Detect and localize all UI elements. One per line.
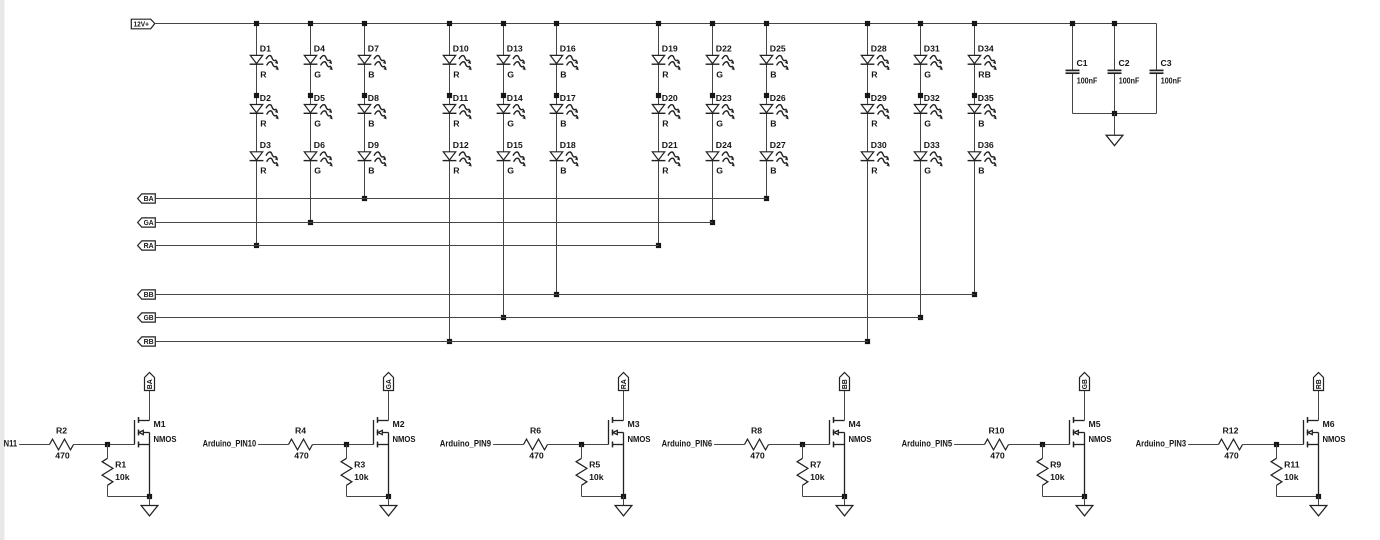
svg-text:D19: D19 — [662, 44, 678, 54]
wire source/ground bus M1 — [108, 496, 150, 498]
LED D11 — [443, 93, 474, 129]
junction rail col6 — [554, 21, 559, 26]
capacitor C2 — [1108, 24, 1140, 114]
svg-text:G: G — [507, 166, 514, 176]
svg-text:D23: D23 — [716, 93, 732, 103]
svg-text:B: B — [978, 118, 984, 128]
junction col4 to RB bus — [447, 339, 452, 344]
junction col6 to BB bus — [554, 292, 559, 297]
junction col1 to RA bus — [254, 243, 259, 248]
svg-text:R: R — [453, 118, 460, 128]
wire LED column 11 (GB string) — [920, 24, 922, 318]
svg-text:D29: D29 — [871, 93, 887, 103]
junction rail col8 — [710, 21, 715, 26]
svg-text:G: G — [507, 69, 514, 79]
junction rail col9 — [764, 21, 769, 26]
svg-text:D14: D14 — [507, 93, 523, 103]
svg-text:D28: D28 — [871, 44, 887, 54]
svg-text:D12: D12 — [453, 140, 469, 150]
wire LED column 7 (RA string) — [658, 24, 660, 246]
resistor R1 10k pull-down — [102, 445, 130, 497]
svg-text:R6: R6 — [530, 426, 541, 436]
LED D12 — [443, 140, 474, 176]
LED D20 — [652, 93, 683, 129]
junction rail col3 — [362, 21, 367, 26]
svg-text:G: G — [924, 118, 931, 128]
junction source-ground M6 — [1316, 494, 1321, 499]
svg-text:NMOS: NMOS — [1323, 434, 1346, 444]
svg-text:D16: D16 — [560, 44, 576, 54]
LED D26 — [760, 93, 791, 129]
svg-text:B: B — [770, 69, 776, 79]
svg-text:470: 470 — [1224, 450, 1239, 460]
svg-text:D20: D20 — [662, 93, 678, 103]
net flag GB — [138, 313, 156, 322]
svg-text:R: R — [453, 166, 460, 176]
svg-text:Arduino_PIN5: Arduino_PIN5 — [902, 439, 953, 449]
svg-text:M1: M1 — [154, 419, 166, 429]
wire source/ground bus M6 — [1277, 496, 1319, 498]
svg-text:D7: D7 — [368, 44, 379, 54]
junction col10 to RB bus — [865, 339, 870, 344]
resistor R4 470 — [289, 426, 313, 461]
wire RB bus — [155, 341, 867, 343]
svg-text:R5: R5 — [589, 460, 600, 470]
power flag 12V+ — [131, 19, 155, 29]
LED D1 — [250, 44, 281, 80]
svg-text:D34: D34 — [978, 44, 994, 54]
junction col5 to GB bus — [501, 315, 506, 320]
junction col3 mid node — [362, 93, 367, 98]
LED D30 — [861, 140, 892, 176]
junction source-ground M2 — [386, 494, 391, 499]
output flag BA — [145, 373, 155, 391]
LED D9 — [358, 140, 389, 176]
capacitor C1 — [1066, 24, 1098, 114]
ground (M6) — [1310, 497, 1327, 516]
svg-text:Arduino_PIN10: Arduino_PIN10 — [203, 439, 257, 449]
LED D13 — [497, 44, 528, 80]
svg-text:R: R — [260, 166, 267, 176]
svg-text:R: R — [871, 118, 878, 128]
junction rail col5 — [501, 21, 506, 26]
svg-text:D2: D2 — [260, 93, 271, 103]
svg-text:B: B — [560, 118, 566, 128]
svg-text:NMOS: NMOS — [628, 434, 651, 444]
svg-text:D9: D9 — [368, 140, 379, 150]
transistor M4 NMOS — [830, 391, 872, 497]
svg-text:R: R — [260, 69, 267, 79]
svg-text:D25: D25 — [770, 44, 786, 54]
junction col10 mid node — [865, 93, 870, 98]
LED D25 — [760, 44, 791, 80]
wire LED column 2 (GA string) — [310, 24, 312, 223]
svg-text:R: R — [260, 118, 267, 128]
wire GB bus — [155, 317, 920, 319]
wire LED column 10 (RB string) — [867, 24, 869, 342]
svg-text:R1: R1 — [115, 460, 126, 470]
LED D27 — [760, 140, 791, 176]
svg-text:B: B — [368, 69, 374, 79]
svg-text:Arduino_PIN9: Arduino_PIN9 — [440, 439, 491, 449]
svg-text:R12: R12 — [1223, 426, 1239, 436]
junction rail col1 — [254, 21, 259, 26]
LED D23 — [706, 93, 737, 129]
svg-text:D13: D13 — [507, 44, 523, 54]
junction col12 mid node — [972, 93, 977, 98]
ground (M3) — [615, 497, 632, 516]
resistor R2 470 — [50, 426, 74, 461]
wire capacitor ground bus — [1073, 113, 1157, 115]
junction source-ground M1 — [147, 494, 152, 499]
LED D16 — [550, 44, 581, 80]
svg-text:R: R — [871, 166, 878, 176]
wire R6 to gate node — [548, 444, 609, 446]
capacitor C3 — [1150, 24, 1182, 114]
svg-text:R: R — [871, 69, 878, 79]
svg-text:100nF: 100nF — [1077, 76, 1098, 86]
resistor R8 470 — [745, 426, 769, 461]
ground (M5) — [1076, 497, 1093, 516]
junction rail col2 — [308, 21, 313, 26]
wire LED column 5 (GB string) — [503, 24, 505, 318]
junction col1 mid node — [254, 93, 259, 98]
svg-text:10k: 10k — [115, 472, 130, 482]
LED D7 — [358, 44, 389, 80]
transistor M5 NMOS — [1070, 391, 1112, 497]
junction gate node M2 — [344, 442, 349, 447]
LED D17 — [550, 93, 581, 129]
LED D31 — [914, 44, 945, 80]
svg-text:Arduino_PIN6: Arduino_PIN6 — [662, 439, 713, 449]
svg-text:B: B — [368, 166, 374, 176]
svg-text:D35: D35 — [978, 93, 994, 103]
svg-text:M2: M2 — [393, 419, 405, 429]
svg-text:M3: M3 — [628, 419, 640, 429]
resistor R11 10k pull-down — [1271, 445, 1300, 497]
wire R2 to gate node — [74, 444, 135, 446]
wire RA bus — [155, 245, 658, 247]
junction col6 mid node — [554, 93, 559, 98]
LED D8 — [358, 93, 389, 129]
junction col9 mid node — [764, 93, 769, 98]
svg-text:B: B — [770, 118, 776, 128]
junction col4 mid node — [447, 93, 452, 98]
svg-text:RB: RB — [1314, 379, 1323, 389]
svg-text:B: B — [560, 69, 566, 79]
svg-text:NMOS: NMOS — [154, 434, 177, 444]
svg-text:470: 470 — [750, 450, 765, 460]
svg-text:D6: D6 — [314, 140, 325, 150]
LED D35 — [968, 93, 999, 129]
junction rail col12 — [972, 21, 977, 26]
junction col12 to BB bus — [972, 292, 977, 297]
svg-text:C2: C2 — [1119, 58, 1130, 68]
junction col2 mid node — [308, 93, 313, 98]
junction col7 to RA bus — [656, 243, 661, 248]
svg-text:470: 470 — [529, 450, 544, 460]
wire R8 to gate node — [769, 444, 830, 446]
svg-text:C3: C3 — [1161, 58, 1172, 68]
svg-text:G: G — [924, 69, 931, 79]
wire R12 to gate node — [1243, 444, 1304, 446]
resistor R5 10k pull-down — [576, 445, 604, 497]
svg-text:M6: M6 — [1323, 419, 1335, 429]
svg-text:D4: D4 — [314, 44, 325, 54]
wire LED column 9 (BA string) — [766, 24, 768, 199]
svg-text:B: B — [770, 166, 776, 176]
junction col8 to GA bus — [710, 220, 715, 225]
wire LED column 6 (BB string) — [556, 24, 558, 295]
LED D6 — [304, 140, 335, 176]
svg-text:10k: 10k — [810, 472, 825, 482]
wire LED column 8 (GA string) — [712, 24, 714, 223]
svg-text:R8: R8 — [751, 426, 762, 436]
svg-text:RA: RA — [144, 241, 154, 250]
transistor M1 NMOS — [135, 391, 177, 497]
svg-text:B: B — [560, 166, 566, 176]
junction rail C2 — [1112, 21, 1117, 26]
output flag RB — [1314, 373, 1324, 391]
screenshot left border strip — [0, 0, 5, 540]
LED D29 — [861, 93, 892, 129]
svg-text:R7: R7 — [810, 460, 821, 470]
svg-text:D15: D15 — [507, 140, 523, 150]
wire N11 to R2 — [19, 444, 49, 446]
svg-text:R9: R9 — [1050, 460, 1061, 470]
junction gate node M5 — [1040, 442, 1045, 447]
svg-text:D21: D21 — [662, 140, 678, 150]
output flag GB — [1080, 373, 1090, 391]
junction cap ground bus — [1112, 111, 1117, 116]
svg-text:R10: R10 — [989, 426, 1005, 436]
svg-text:12V+: 12V+ — [133, 19, 149, 28]
junction col3 to BA bus — [362, 196, 367, 201]
svg-text:D17: D17 — [560, 93, 576, 103]
junction gate node M4 — [800, 442, 805, 447]
junction rail col11 — [918, 21, 923, 26]
junction source-ground M5 — [1082, 494, 1087, 499]
svg-text:G: G — [314, 166, 321, 176]
wire Arduino_PIN3 to R12 — [1188, 444, 1218, 446]
svg-text:R2: R2 — [56, 426, 67, 436]
junction col8 mid node — [710, 93, 715, 98]
ground (M2) — [380, 497, 397, 516]
LED D21 — [652, 140, 683, 176]
svg-text:10k: 10k — [1050, 472, 1065, 482]
wire Arduino_PIN5 to R10 — [954, 444, 984, 446]
net flag GA — [138, 218, 156, 227]
svg-text:NMOS: NMOS — [1089, 434, 1112, 444]
svg-text:G: G — [716, 118, 723, 128]
resistor R6 470 — [524, 426, 548, 461]
wire GA bus — [155, 222, 712, 224]
LED D24 — [706, 140, 737, 176]
junction rail col10 — [865, 21, 870, 26]
svg-text:10k: 10k — [1284, 472, 1299, 482]
LED D28 — [861, 44, 892, 80]
svg-text:BA: BA — [145, 379, 154, 389]
svg-text:GA: GA — [384, 379, 393, 389]
wire Arduino_PIN9 to R6 — [493, 444, 523, 446]
svg-text:G: G — [716, 69, 723, 79]
LED D14 — [497, 93, 528, 129]
LED D5 — [304, 93, 335, 129]
svg-text:N11: N11 — [4, 439, 18, 449]
svg-text:D10: D10 — [453, 44, 469, 54]
svg-text:D31: D31 — [924, 44, 940, 54]
svg-text:M4: M4 — [849, 419, 861, 429]
junction rail col4 — [447, 21, 452, 26]
net flag BA — [138, 194, 156, 203]
svg-text:RB: RB — [978, 69, 991, 79]
LED D34 — [968, 44, 999, 80]
svg-text:G: G — [716, 166, 723, 176]
resistor R10 470 — [985, 426, 1009, 461]
junction gate node M3 — [579, 442, 584, 447]
svg-text:D5: D5 — [314, 93, 325, 103]
svg-text:470: 470 — [55, 450, 70, 460]
junction col2 to GA bus — [308, 220, 313, 225]
svg-text:G: G — [314, 118, 321, 128]
junction source-ground M4 — [842, 494, 847, 499]
LED D4 — [304, 44, 335, 80]
junction source-ground M3 — [621, 494, 626, 499]
svg-text:NMOS: NMOS — [849, 434, 872, 444]
net flag BB — [138, 290, 156, 299]
svg-text:RA: RA — [619, 379, 628, 389]
ground (M4) — [836, 497, 853, 516]
wire source/ground bus M4 — [803, 496, 845, 498]
svg-text:R3: R3 — [354, 460, 365, 470]
svg-text:D3: D3 — [260, 140, 271, 150]
transistor M3 NMOS — [609, 391, 651, 497]
wire BA bus — [155, 198, 766, 200]
svg-text:GB: GB — [144, 313, 154, 322]
LED D15 — [497, 140, 528, 176]
transistor M2 NMOS — [374, 391, 416, 497]
svg-text:10k: 10k — [589, 472, 604, 482]
resistor R3 10k pull-down — [341, 445, 369, 497]
svg-text:B: B — [368, 118, 374, 128]
wire R4 to gate node — [313, 444, 374, 446]
LED D2 — [250, 93, 281, 129]
LED D19 — [652, 44, 683, 80]
svg-text:Arduino_PIN3: Arduino_PIN3 — [1136, 439, 1187, 449]
wire BB bus — [155, 294, 974, 296]
svg-text:100nF: 100nF — [1119, 76, 1140, 86]
junction col11 mid node — [918, 93, 923, 98]
svg-text:D24: D24 — [716, 140, 732, 150]
svg-text:D33: D33 — [924, 140, 940, 150]
svg-text:470: 470 — [294, 450, 309, 460]
wire LED column 3 (BA string) — [364, 24, 366, 199]
junction gate node M6 — [1274, 442, 1279, 447]
wire to ground — [1114, 114, 1116, 136]
svg-text:C1: C1 — [1077, 58, 1088, 68]
svg-text:BB: BB — [840, 379, 849, 389]
LED D32 — [914, 93, 945, 129]
wire source/ground bus M2 — [347, 496, 389, 498]
LED D36 — [968, 140, 999, 176]
svg-text:R: R — [662, 69, 669, 79]
svg-text:D18: D18 — [560, 140, 576, 150]
svg-text:D26: D26 — [770, 93, 786, 103]
transistor M6 NMOS — [1304, 391, 1346, 497]
junction col7 mid node — [656, 93, 661, 98]
svg-text:GA: GA — [144, 218, 154, 227]
svg-text:R4: R4 — [295, 426, 306, 436]
svg-text:G: G — [314, 69, 321, 79]
output flag GA — [384, 373, 394, 391]
LED D22 — [706, 44, 737, 80]
svg-text:BA: BA — [144, 194, 154, 203]
svg-text:R: R — [662, 166, 669, 176]
junction rail col7 — [656, 21, 661, 26]
net flag RA — [138, 241, 156, 250]
wire LED column 4 (RB string) — [449, 24, 451, 342]
LED D10 — [443, 44, 474, 80]
wire source/ground bus M3 — [582, 496, 624, 498]
svg-text:R: R — [662, 118, 669, 128]
junction rail C1 — [1070, 21, 1075, 26]
resistor R7 10k pull-down — [797, 445, 825, 497]
wire 12V+ rail — [155, 23, 1157, 25]
svg-text:BB: BB — [144, 290, 154, 299]
svg-text:D30: D30 — [871, 140, 887, 150]
svg-text:RB: RB — [144, 337, 154, 346]
wire Arduino_PIN6 to R8 — [714, 444, 744, 446]
LED D33 — [914, 140, 945, 176]
svg-text:G: G — [924, 166, 931, 176]
svg-text:D22: D22 — [716, 44, 732, 54]
LED D18 — [550, 140, 581, 176]
svg-text:GB: GB — [1080, 379, 1089, 389]
svg-text:M5: M5 — [1089, 419, 1101, 429]
wire LED column 1 (RA string) — [256, 24, 258, 246]
svg-text:NMOS: NMOS — [393, 434, 416, 444]
net flag RB — [138, 337, 156, 346]
svg-text:100nF: 100nF — [1161, 76, 1182, 86]
wire R10 to gate node — [1009, 444, 1070, 446]
svg-text:D1: D1 — [260, 44, 271, 54]
svg-text:D36: D36 — [978, 140, 994, 150]
svg-text:B: B — [978, 166, 984, 176]
junction col5 mid node — [501, 93, 506, 98]
junction col9 to BA bus — [764, 196, 769, 201]
resistor R12 470 — [1219, 426, 1243, 461]
wire Arduino_PIN10 to R4 — [258, 444, 288, 446]
LED D3 — [250, 140, 281, 176]
output flag RA — [619, 373, 629, 391]
ground (M1) — [141, 497, 158, 516]
resistor R9 10k pull-down — [1037, 445, 1065, 497]
svg-text:10k: 10k — [354, 472, 369, 482]
svg-text:R11: R11 — [1284, 460, 1300, 470]
output flag BB — [840, 373, 850, 391]
svg-text:D32: D32 — [924, 93, 940, 103]
wire source/ground bus M5 — [1043, 496, 1085, 498]
svg-text:D27: D27 — [770, 140, 786, 150]
wire LED column 12 (BB string) — [974, 24, 976, 295]
svg-text:D11: D11 — [453, 93, 469, 103]
svg-text:470: 470 — [990, 450, 1005, 460]
junction col11 to GB bus — [918, 315, 923, 320]
svg-text:D8: D8 — [368, 93, 379, 103]
svg-text:R: R — [453, 69, 460, 79]
svg-text:G: G — [507, 118, 514, 128]
junction gate node M1 — [105, 442, 110, 447]
